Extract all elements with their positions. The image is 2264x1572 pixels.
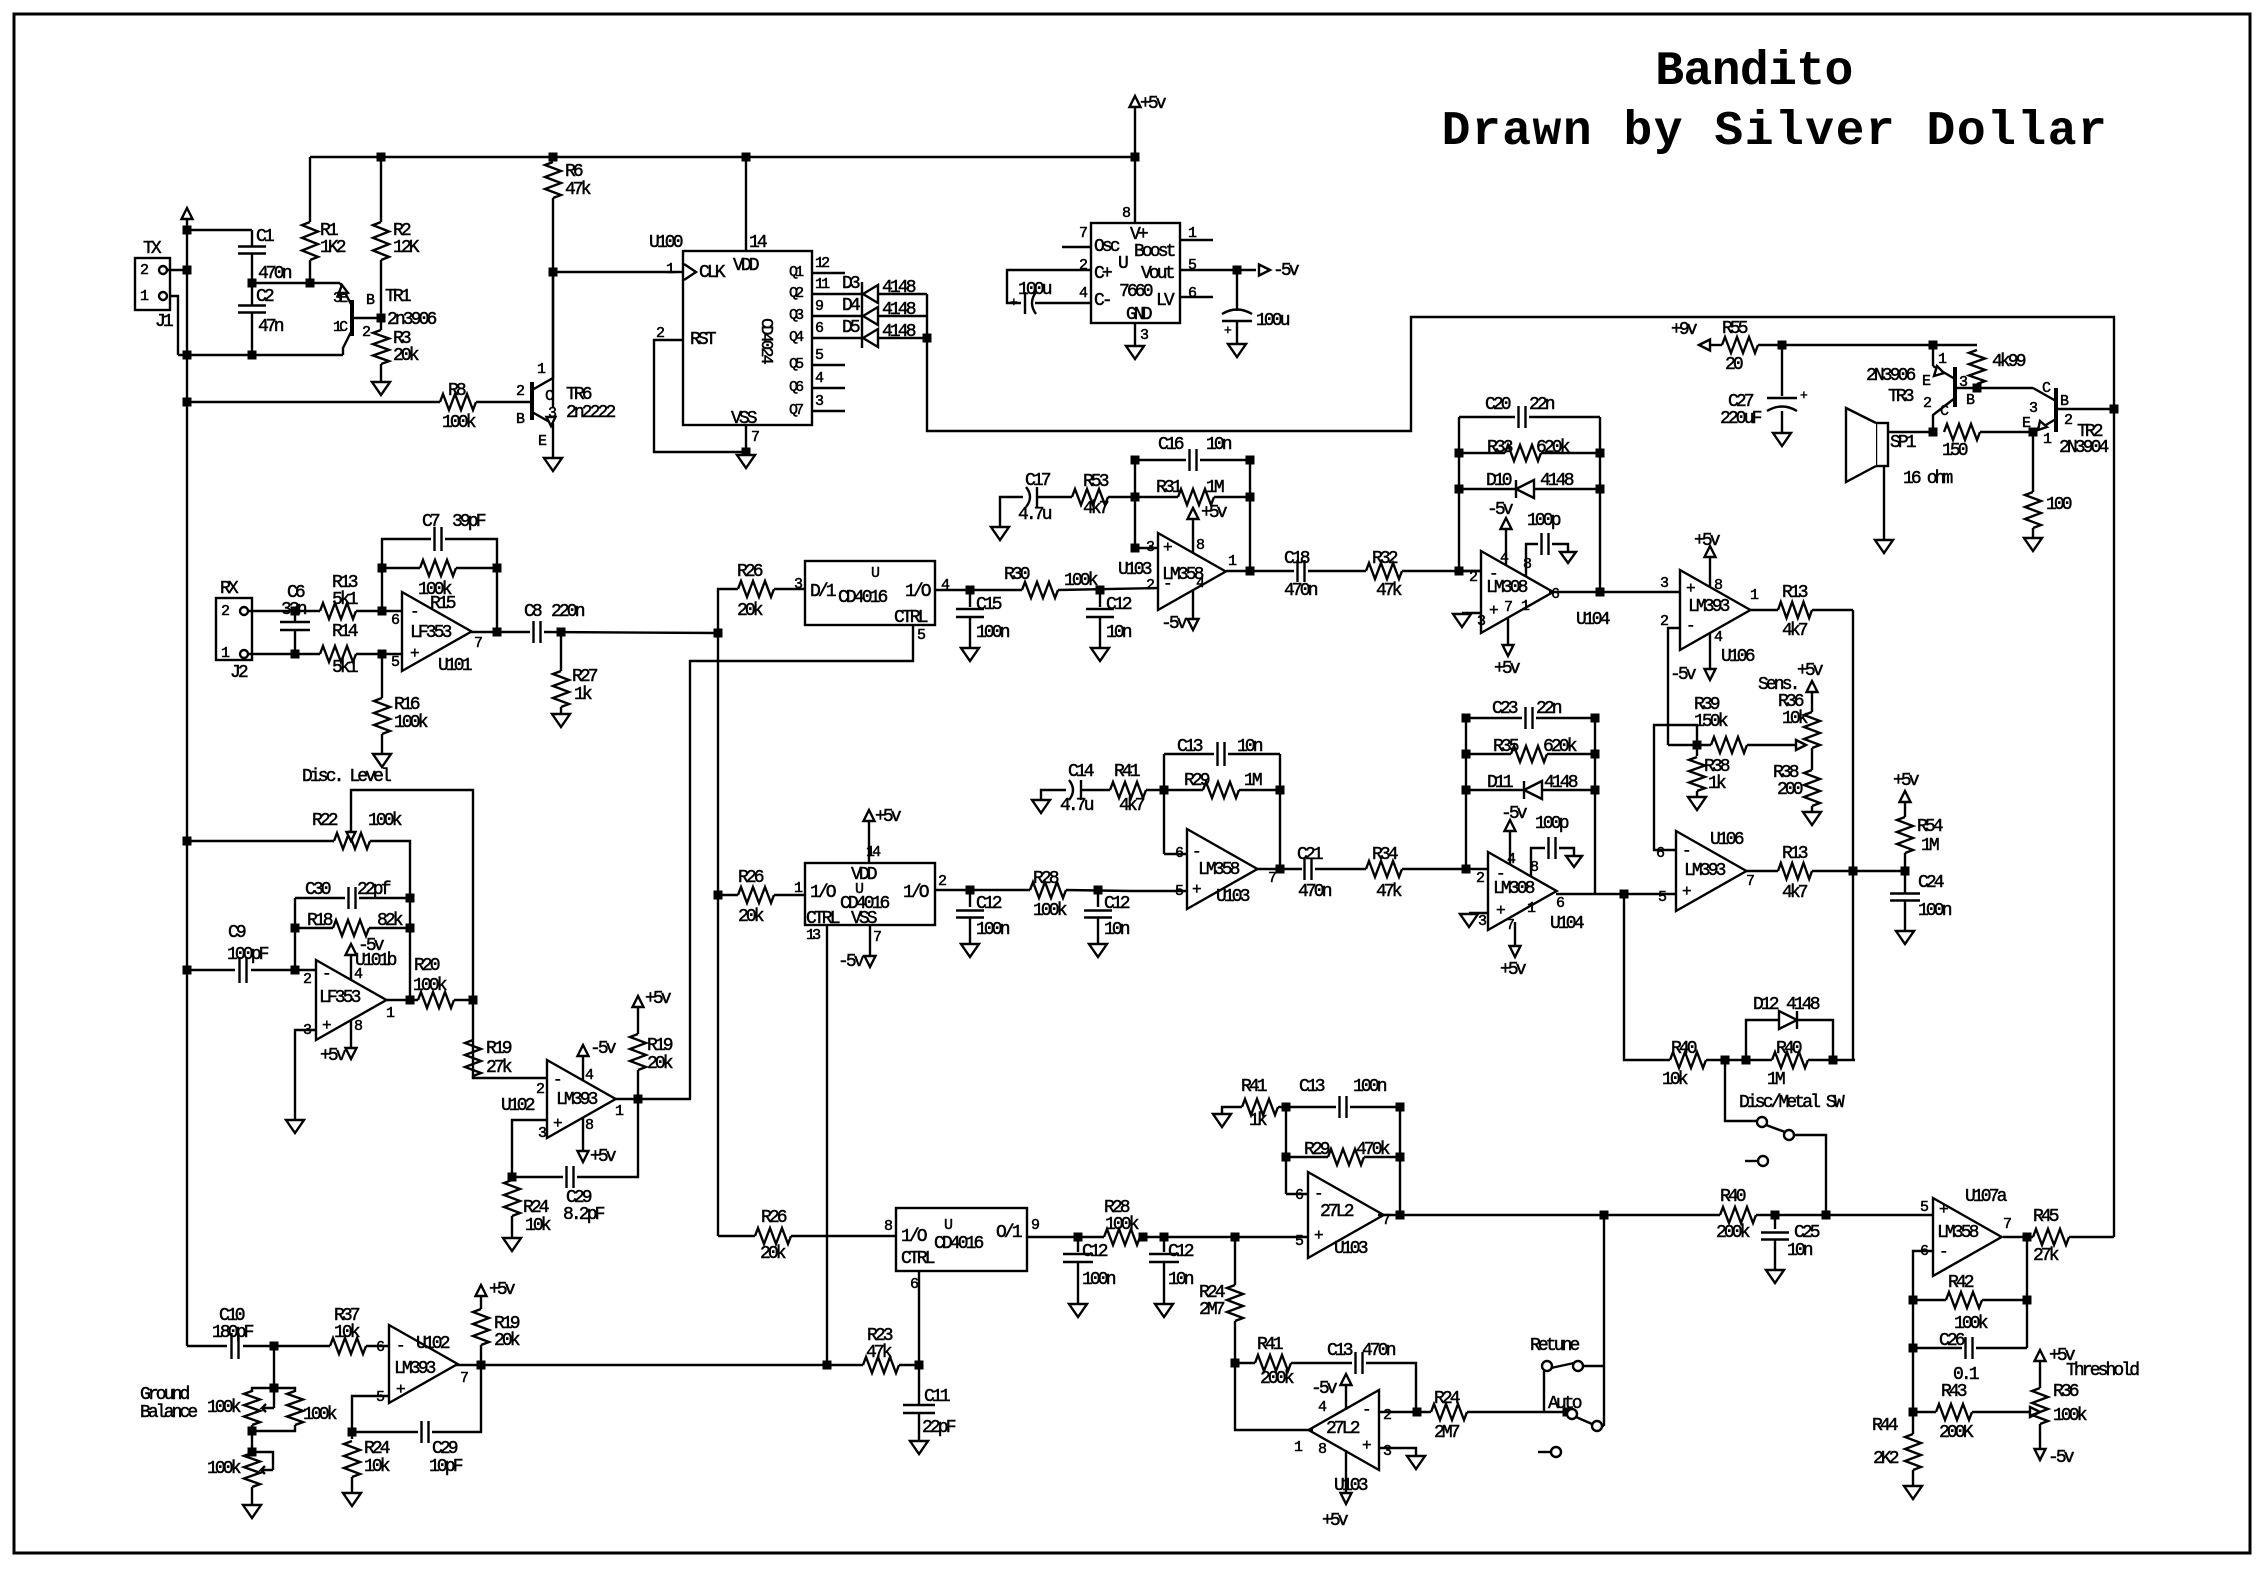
svg-text:Boost: Boost xyxy=(1134,242,1175,262)
svg-text:LM393: LM393 xyxy=(1688,597,1730,617)
svg-text:C30: C30 xyxy=(305,880,331,900)
svg-text:D10: D10 xyxy=(1486,471,1512,491)
svg-text:U106: U106 xyxy=(1710,830,1744,850)
svg-text:-: - xyxy=(1314,1185,1321,1203)
svg-text:220uF: 220uF xyxy=(1720,409,1762,429)
svg-text:C16: C16 xyxy=(1158,435,1184,455)
svg-text:Drawn by Silver Dollar: Drawn by Silver Dollar xyxy=(1442,105,2109,159)
svg-text:470k: 470k xyxy=(1356,1140,1390,1160)
svg-text:R13: R13 xyxy=(1782,583,1808,603)
svg-text:100u: 100u xyxy=(1256,311,1290,331)
svg-text:180pF: 180pF xyxy=(212,1323,254,1343)
svg-text:R40: R40 xyxy=(1720,1187,1746,1207)
svg-text:C23: C23 xyxy=(1492,699,1518,719)
svg-text:C15: C15 xyxy=(976,595,1002,615)
svg-text:27k: 27k xyxy=(486,1058,512,1078)
svg-text:R41: R41 xyxy=(1241,1077,1267,1097)
svg-text:620k: 620k xyxy=(1543,737,1577,757)
svg-text:100pF: 100pF xyxy=(227,945,269,965)
svg-text:-: - xyxy=(1192,843,1199,861)
svg-text:-5v: -5v xyxy=(1501,804,1528,824)
svg-text:U103: U103 xyxy=(1216,887,1250,907)
svg-text:Disc/Metal SW: Disc/Metal SW xyxy=(1739,1093,1845,1113)
svg-text:+5v: +5v xyxy=(1494,659,1521,679)
svg-text:R29: R29 xyxy=(1184,771,1210,791)
svg-text:20k: 20k xyxy=(393,346,419,366)
svg-text:10k: 10k xyxy=(334,1323,360,1343)
svg-text:R44: R44 xyxy=(1872,1416,1898,1436)
svg-text:R54: R54 xyxy=(1917,817,1943,837)
svg-text:14: 14 xyxy=(749,233,767,253)
svg-text:-5v: -5v xyxy=(1487,500,1514,520)
svg-text:C18: C18 xyxy=(1284,549,1310,569)
svg-text:CTRL: CTRL xyxy=(806,909,840,929)
svg-text:100k: 100k xyxy=(368,811,402,831)
svg-text:R32: R32 xyxy=(1372,549,1398,569)
svg-text:1k: 1k xyxy=(574,685,592,705)
svg-text:C17: C17 xyxy=(1025,471,1051,491)
svg-text:C21: C21 xyxy=(1297,845,1323,865)
svg-text:CTRL: CTRL xyxy=(901,1249,935,1269)
svg-text:GND: GND xyxy=(1126,305,1152,325)
svg-text:470n: 470n xyxy=(258,264,292,284)
svg-text:CTRL: CTRL xyxy=(894,608,928,628)
svg-text:10n: 10n xyxy=(1206,435,1232,455)
svg-text:47k: 47k xyxy=(565,180,591,200)
svg-text:R27: R27 xyxy=(572,667,598,687)
svg-text:-: - xyxy=(1362,1401,1369,1419)
svg-text:20k: 20k xyxy=(738,907,764,927)
svg-text:+9v: +9v xyxy=(1671,320,1698,340)
svg-text:1/O: 1/O xyxy=(810,883,836,903)
svg-text:200k: 200k xyxy=(1716,1223,1750,1243)
svg-text:R13: R13 xyxy=(1782,844,1808,864)
svg-text:5k1: 5k1 xyxy=(332,590,358,610)
svg-text:2n3906: 2n3906 xyxy=(387,310,437,330)
svg-text:100k: 100k xyxy=(207,1459,241,1479)
svg-text:U100: U100 xyxy=(649,233,683,253)
svg-text:LM308: LM308 xyxy=(1486,578,1528,598)
svg-text:-: - xyxy=(1686,617,1693,635)
svg-text:10n: 10n xyxy=(1787,1241,1813,1261)
svg-text:Retune: Retune xyxy=(1530,1336,1580,1356)
svg-text:8.2pF: 8.2pF xyxy=(563,1205,605,1225)
svg-text:47n: 47n xyxy=(258,317,284,337)
svg-text:1K2: 1K2 xyxy=(320,238,346,258)
svg-text:VDD: VDD xyxy=(733,256,759,276)
svg-text:R34: R34 xyxy=(1372,845,1398,865)
svg-text:-5v: -5v xyxy=(1311,1379,1338,1399)
svg-text:U106: U106 xyxy=(1721,647,1755,667)
svg-text:R24: R24 xyxy=(364,1439,390,1459)
svg-text:100k: 100k xyxy=(1105,1215,1139,1235)
svg-text:1/O: 1/O xyxy=(905,582,931,602)
svg-text:LM393: LM393 xyxy=(394,1359,436,1379)
svg-text:C25: C25 xyxy=(1794,1223,1820,1243)
svg-text:R19: R19 xyxy=(486,1039,512,1059)
svg-text:20k: 20k xyxy=(737,601,763,621)
svg-text:+5v: +5v xyxy=(645,989,672,1009)
svg-text:1/O: 1/O xyxy=(901,1227,927,1247)
svg-text:D11: D11 xyxy=(1487,773,1513,793)
svg-text:R18: R18 xyxy=(307,911,333,931)
svg-text:-: - xyxy=(396,1337,403,1355)
svg-text:150k: 150k xyxy=(1694,712,1728,732)
svg-text:100k: 100k xyxy=(303,1405,337,1425)
svg-text:1M: 1M xyxy=(1206,478,1224,498)
svg-text:470n: 470n xyxy=(1284,581,1318,601)
svg-text:Threshold: Threshold xyxy=(2066,1361,2139,1381)
svg-text:R28: R28 xyxy=(1033,869,1059,889)
svg-text:+5v: +5v xyxy=(1500,960,1527,980)
svg-text:-5v: -5v xyxy=(590,1039,617,1059)
svg-text:-: - xyxy=(1682,842,1689,860)
svg-text:C20: C20 xyxy=(1485,395,1511,415)
svg-text:27L2: 27L2 xyxy=(1326,1419,1360,1439)
svg-text:-5v: -5v xyxy=(1670,665,1697,685)
svg-text:10n: 10n xyxy=(1237,737,1263,757)
svg-text:R45: R45 xyxy=(2033,1207,2059,1227)
svg-text:C12: C12 xyxy=(976,894,1002,914)
svg-text:22pF: 22pF xyxy=(922,1418,956,1438)
svg-text:100n: 100n xyxy=(1082,1270,1116,1290)
svg-text:Ground: Ground xyxy=(140,1385,190,1405)
svg-text:100k: 100k xyxy=(413,976,447,996)
svg-text:2M7: 2M7 xyxy=(1199,1300,1225,1320)
svg-text:C29: C29 xyxy=(432,1439,458,1459)
svg-text:R26: R26 xyxy=(738,868,764,888)
svg-text:1M: 1M xyxy=(1244,771,1262,791)
svg-text:D3: D3 xyxy=(842,274,860,294)
svg-text:C13: C13 xyxy=(1177,737,1203,757)
svg-text:Vout: Vout xyxy=(1141,264,1174,284)
svg-text:100n: 100n xyxy=(976,920,1010,940)
svg-text:4148: 4148 xyxy=(882,278,916,298)
svg-text:-5v: -5v xyxy=(1161,614,1188,634)
svg-text:C14: C14 xyxy=(1068,762,1094,782)
svg-text:R30: R30 xyxy=(1004,565,1030,585)
svg-text:Bandito: Bandito xyxy=(1655,45,1852,99)
svg-text:12: 12 xyxy=(815,255,829,272)
svg-text:D4: D4 xyxy=(842,296,860,316)
svg-text:47k: 47k xyxy=(1376,882,1402,902)
svg-text:2N3906: 2N3906 xyxy=(1866,366,1916,386)
svg-text:22pf: 22pf xyxy=(357,880,391,900)
svg-text:C12: C12 xyxy=(1104,894,1130,914)
svg-text:U104: U104 xyxy=(1550,914,1584,934)
svg-text:LM393: LM393 xyxy=(556,1090,598,1110)
svg-text:100p: 100p xyxy=(1527,511,1561,531)
svg-text:20k: 20k xyxy=(494,1331,520,1351)
svg-text:LM358: LM358 xyxy=(1937,1223,1979,1243)
svg-text:10pF: 10pF xyxy=(429,1457,463,1477)
svg-text:1k: 1k xyxy=(1249,1111,1267,1131)
svg-text:R24: R24 xyxy=(1434,1389,1460,1409)
svg-text:+5v: +5v xyxy=(489,1280,516,1300)
svg-text:10k: 10k xyxy=(1662,1070,1688,1090)
svg-text:Osc: Osc xyxy=(1094,237,1120,257)
svg-text:100k: 100k xyxy=(2053,1406,2087,1426)
svg-text:20: 20 xyxy=(1725,355,1743,375)
svg-text:U107a: U107a xyxy=(1965,1187,2008,1207)
svg-text:R26: R26 xyxy=(761,1208,787,1228)
svg-text:+5v: +5v xyxy=(590,1147,617,1167)
svg-text:C7: C7 xyxy=(422,512,440,532)
svg-text:4.7u: 4.7u xyxy=(1018,505,1052,525)
svg-text:+5v: +5v xyxy=(875,807,902,827)
svg-text:47k: 47k xyxy=(866,1343,892,1363)
svg-text:R36: R36 xyxy=(2053,1382,2079,1402)
svg-text:LM308: LM308 xyxy=(1493,879,1535,899)
svg-text:R53: R53 xyxy=(1083,472,1109,492)
svg-text:2n2222: 2n2222 xyxy=(566,403,616,423)
svg-text:R43: R43 xyxy=(1941,1382,1967,1402)
svg-text:200k: 200k xyxy=(1260,1369,1294,1389)
svg-text:22n: 22n xyxy=(1536,699,1562,719)
svg-text:150: 150 xyxy=(1942,441,1968,461)
svg-text:C1: C1 xyxy=(256,227,274,247)
svg-text:Balance: Balance xyxy=(140,1403,197,1423)
svg-text:100n: 100n xyxy=(976,623,1010,643)
svg-text:R26: R26 xyxy=(737,562,763,582)
svg-text:C11: C11 xyxy=(924,1387,950,1407)
svg-text:100n: 100n xyxy=(1918,901,1952,921)
svg-text:2K2: 2K2 xyxy=(1873,1449,1899,1469)
svg-text:D12: D12 xyxy=(1753,995,1779,1015)
svg-text:D5: D5 xyxy=(842,318,860,338)
svg-text:J1: J1 xyxy=(155,312,173,332)
svg-text:C13: C13 xyxy=(1299,1077,1325,1097)
svg-text:U102: U102 xyxy=(501,1096,535,1116)
svg-text:-5v: -5v xyxy=(1273,261,1300,281)
svg-text:470n: 470n xyxy=(1298,882,1332,902)
svg-text:+5v: +5v xyxy=(320,1046,347,1066)
svg-text:-: - xyxy=(1939,1243,1946,1261)
svg-text:LF353: LF353 xyxy=(410,623,452,643)
svg-text:R29: R29 xyxy=(1304,1140,1330,1160)
svg-text:R42: R42 xyxy=(1948,1273,1974,1293)
svg-text:R40: R40 xyxy=(1776,1039,1802,1059)
svg-text:470n: 470n xyxy=(1362,1341,1396,1361)
svg-text:620k: 620k xyxy=(1536,438,1570,458)
svg-text:LF353: LF353 xyxy=(319,988,361,1008)
svg-text:20k: 20k xyxy=(647,1054,673,1074)
svg-text:VSS: VSS xyxy=(731,409,757,429)
svg-text:R40: R40 xyxy=(1671,1039,1697,1059)
svg-text:-5v: -5v xyxy=(2048,1448,2075,1468)
svg-text:R41: R41 xyxy=(1257,1335,1283,1355)
svg-text:R6: R6 xyxy=(565,162,583,182)
svg-text:SP1: SP1 xyxy=(1890,433,1916,453)
svg-text:27L2: 27L2 xyxy=(1320,1202,1354,1222)
svg-text:R20: R20 xyxy=(414,956,440,976)
svg-text:CLK: CLK xyxy=(699,263,726,283)
svg-text:100u: 100u xyxy=(1018,280,1052,300)
svg-text:4k7: 4k7 xyxy=(1782,621,1808,641)
svg-text:R33: R33 xyxy=(1487,438,1513,458)
svg-text:C24: C24 xyxy=(1918,873,1944,893)
svg-text:4k7: 4k7 xyxy=(1119,796,1145,816)
svg-text:R55: R55 xyxy=(1722,319,1748,339)
svg-text:200: 200 xyxy=(1777,780,1803,800)
svg-text:+5v: +5v xyxy=(2049,1346,2076,1366)
svg-text:5k1: 5k1 xyxy=(332,658,358,678)
svg-text:4148: 4148 xyxy=(1540,471,1574,491)
svg-text:1k: 1k xyxy=(1708,774,1726,794)
svg-text:39pF: 39pF xyxy=(452,512,486,532)
svg-text:C26: C26 xyxy=(1939,1331,1965,1351)
svg-text:1/O: 1/O xyxy=(903,883,929,903)
svg-text:U104: U104 xyxy=(1576,610,1610,630)
svg-text:+5v: +5v xyxy=(1893,771,1920,791)
svg-text:2N3904: 2N3904 xyxy=(2059,438,2109,458)
svg-text:100k: 100k xyxy=(1064,571,1098,591)
svg-text:10n: 10n xyxy=(1168,1270,1194,1290)
svg-text:-5v: -5v xyxy=(838,952,865,972)
svg-text:-: - xyxy=(553,1071,560,1089)
svg-text:CD4016: CD4016 xyxy=(838,588,888,608)
svg-text:Q7: Q7 xyxy=(789,402,803,419)
svg-text:Disc. Level: Disc. Level xyxy=(302,767,391,787)
svg-text:100: 100 xyxy=(2046,495,2072,515)
svg-text:100k: 100k xyxy=(394,713,428,733)
svg-text:C8: C8 xyxy=(524,602,542,622)
svg-text:C12: C12 xyxy=(1168,1242,1194,1262)
svg-text:100n: 100n xyxy=(1353,1077,1387,1097)
svg-text:200K: 200K xyxy=(1939,1423,1974,1443)
svg-text:R35: R35 xyxy=(1493,737,1519,757)
svg-text:4k99: 4k99 xyxy=(1992,352,2026,372)
svg-text:10n: 10n xyxy=(1106,623,1132,643)
svg-text:C12: C12 xyxy=(1106,595,1132,615)
svg-text:1M: 1M xyxy=(1767,1070,1785,1090)
svg-text:220n: 220n xyxy=(551,602,585,622)
svg-text:+5v: +5v xyxy=(1201,503,1228,523)
svg-text:U101: U101 xyxy=(438,656,472,676)
svg-text:CD4024: CD4024 xyxy=(756,318,775,365)
svg-text:U103: U103 xyxy=(1118,560,1152,580)
svg-text:C+: C+ xyxy=(1094,264,1112,284)
svg-text:U103: U103 xyxy=(1334,1239,1368,1259)
svg-text:TR6: TR6 xyxy=(566,385,592,405)
svg-text:10n: 10n xyxy=(1104,920,1130,940)
svg-text:20k: 20k xyxy=(760,1244,786,1264)
svg-text:+5v: +5v xyxy=(1797,661,1824,681)
svg-text:10k: 10k xyxy=(364,1457,390,1477)
svg-text:4.7u: 4.7u xyxy=(1060,796,1094,816)
svg-text:100k: 100k xyxy=(442,413,476,433)
svg-text:Q2: Q2 xyxy=(789,285,803,302)
svg-text:4k7: 4k7 xyxy=(1782,883,1808,903)
svg-text:+5v: +5v xyxy=(1322,1511,1349,1531)
svg-text:12K: 12K xyxy=(393,238,420,258)
svg-text:R31: R31 xyxy=(1156,478,1182,498)
svg-text:R19: R19 xyxy=(647,1036,673,1056)
svg-text:R8: R8 xyxy=(448,381,466,401)
svg-text:C12: C12 xyxy=(1082,1242,1108,1262)
svg-text:100k: 100k xyxy=(1033,901,1067,921)
svg-text:R14: R14 xyxy=(332,622,358,642)
svg-text:2M7: 2M7 xyxy=(1434,1423,1460,1443)
svg-text:4148: 4148 xyxy=(882,300,916,320)
svg-text:16 ohm: 16 ohm xyxy=(1903,469,1953,489)
svg-text:R24: R24 xyxy=(523,1198,549,1218)
svg-text:D/1: D/1 xyxy=(810,582,836,602)
svg-text:-: - xyxy=(322,965,329,983)
svg-text:4k7: 4k7 xyxy=(1083,499,1109,519)
svg-text:RST: RST xyxy=(690,330,717,350)
svg-text:1M: 1M xyxy=(1921,836,1939,856)
svg-text:82k: 82k xyxy=(377,911,403,931)
svg-text:22n: 22n xyxy=(1529,395,1555,415)
svg-text:+5v: +5v xyxy=(1694,531,1721,551)
svg-text:C13: C13 xyxy=(1327,1341,1353,1361)
svg-text:O/1: O/1 xyxy=(996,1223,1022,1243)
svg-text:+5v: +5v xyxy=(1140,94,1167,114)
svg-text:VSS: VSS xyxy=(851,909,877,929)
svg-text:C-: C- xyxy=(1094,291,1110,311)
svg-text:C2: C2 xyxy=(256,287,274,307)
svg-text:R41: R41 xyxy=(1114,762,1140,782)
svg-text:R16: R16 xyxy=(394,695,420,715)
svg-text:100k: 100k xyxy=(207,1398,241,1418)
svg-text:4148: 4148 xyxy=(882,322,916,342)
svg-text:LM358: LM358 xyxy=(1198,860,1240,880)
svg-text:100p: 100p xyxy=(1535,814,1569,834)
svg-text:27k: 27k xyxy=(2033,1246,2059,1266)
svg-text:TR1: TR1 xyxy=(385,287,411,307)
svg-text:4148: 4148 xyxy=(1786,995,1820,1015)
svg-text:-: - xyxy=(410,603,417,621)
svg-text:C9: C9 xyxy=(228,923,246,943)
svg-text:4148: 4148 xyxy=(1544,773,1578,793)
svg-text:U101b: U101b xyxy=(355,951,397,971)
svg-text:10k: 10k xyxy=(525,1216,551,1236)
svg-text:TR3: TR3 xyxy=(1888,387,1914,407)
svg-text:LM393: LM393 xyxy=(1684,861,1726,881)
svg-text:U102: U102 xyxy=(416,1334,450,1354)
svg-text:R22: R22 xyxy=(312,811,338,831)
svg-text:J2: J2 xyxy=(230,663,248,683)
svg-text:47k: 47k xyxy=(1376,581,1402,601)
svg-text:7660: 7660 xyxy=(1119,282,1153,302)
svg-text:CD4016: CD4016 xyxy=(934,1234,984,1254)
svg-text:R15: R15 xyxy=(430,594,456,614)
